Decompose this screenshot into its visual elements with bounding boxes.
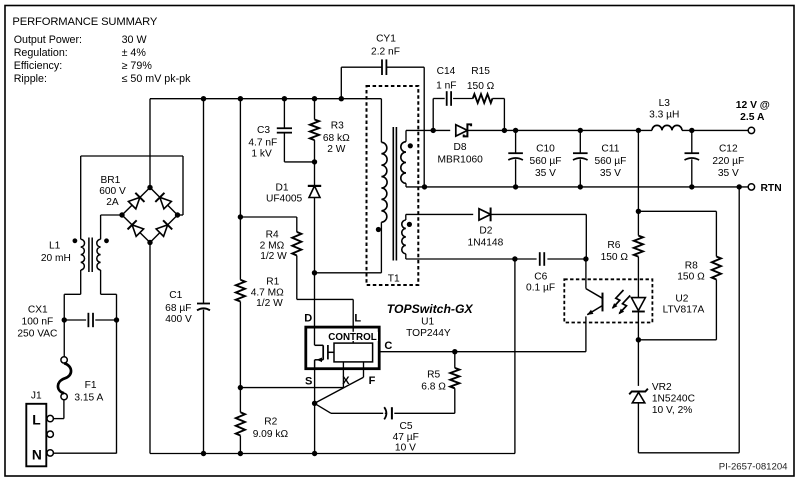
node feedback tap	[636, 209, 641, 214]
node CY1/RTN	[422, 184, 427, 189]
svg-text:Output Power:: Output Power:	[14, 34, 82, 46]
wire	[284, 161, 314, 163]
svg-text:MBR1060: MBR1060	[438, 154, 484, 165]
svg-text:1N5240C: 1N5240C	[652, 393, 695, 404]
wire	[101, 293, 117, 295]
resistor R15	[473, 94, 493, 103]
junction	[513, 184, 518, 189]
svg-text:47 µF: 47 µF	[393, 432, 419, 443]
wire	[315, 359, 324, 361]
svg-text:VR2: VR2	[652, 382, 672, 393]
wire	[315, 377, 364, 403]
wire	[381, 351, 586, 353]
T1 dashed box	[367, 86, 419, 285]
wire	[352, 299, 354, 343]
wire	[122, 188, 150, 216]
wire	[394, 412, 455, 414]
wire	[423, 67, 425, 187]
wire	[715, 280, 717, 340]
wire	[150, 215, 178, 243]
wire primary ground bus	[150, 453, 515, 455]
opto light arrows	[613, 290, 624, 308]
wire T1 primary bottom	[380, 222, 382, 273]
wire	[637, 403, 639, 453]
wire	[203, 99, 205, 304]
svg-text:N: N	[32, 447, 42, 462]
RTN terminal	[748, 184, 754, 190]
optocoupler U2 LED	[631, 298, 645, 311]
wire	[64, 293, 80, 295]
node clamp	[312, 159, 317, 164]
inductor L3	[652, 125, 682, 130]
svg-text:D2: D2	[479, 226, 492, 237]
svg-text:150 Ω: 150 Ω	[467, 81, 495, 92]
terminal J1 L	[47, 415, 53, 421]
svg-text:1 kV: 1 kV	[251, 148, 272, 159]
svg-text:C6: C6	[534, 272, 547, 283]
wire	[182, 156, 184, 215]
wire sec to D8	[406, 129, 450, 131]
wire	[314, 360, 316, 370]
wire	[315, 272, 382, 274]
svg-text:RTN: RTN	[761, 183, 782, 194]
svg-text:F1: F1	[85, 380, 97, 391]
svg-text:4.7 MΩ: 4.7 MΩ	[251, 287, 284, 298]
wire	[63, 400, 65, 419]
svg-text:1 nF: 1 nF	[436, 81, 456, 92]
svg-text:D8: D8	[453, 142, 466, 153]
diode D8	[456, 124, 471, 136]
wire	[715, 211, 717, 256]
svg-text:U2: U2	[675, 293, 688, 304]
wire R4 to L pin	[297, 298, 353, 300]
node L3 left	[636, 128, 641, 133]
wire	[406, 258, 537, 260]
U1 gate bar	[327, 345, 329, 359]
wire bias to D2	[406, 213, 473, 215]
svg-text:1N4148: 1N4148	[468, 238, 504, 249]
svg-text:L3: L3	[659, 98, 671, 109]
svg-text:Efficiency:: Efficiency:	[14, 60, 63, 72]
wire	[239, 302, 241, 413]
svg-text:C1: C1	[169, 290, 182, 301]
wire feedback tap	[637, 130, 639, 211]
wire	[391, 407, 393, 419]
svg-text:R6: R6	[607, 240, 620, 251]
svg-text:R3: R3	[331, 121, 344, 132]
svg-text:35 V: 35 V	[535, 168, 556, 179]
wire	[331, 412, 383, 414]
node CY1 rail	[339, 96, 344, 101]
svg-text:2.2 nF: 2.2 nF	[371, 46, 400, 57]
node VR2 return RTN	[737, 184, 742, 189]
svg-text:R2: R2	[264, 417, 277, 428]
node bridge +	[147, 185, 152, 190]
svg-text:100 nF: 100 nF	[22, 317, 54, 328]
svg-text:C: C	[384, 340, 392, 352]
svg-text:R15: R15	[471, 66, 490, 77]
wire	[239, 99, 241, 280]
wire	[585, 214, 587, 259]
wire	[587, 306, 602, 315]
wire	[579, 159, 581, 187]
wire	[341, 66, 382, 68]
svg-text:Regulation:: Regulation:	[14, 47, 68, 59]
svg-text:C12: C12	[719, 144, 738, 155]
wire	[314, 140, 316, 185]
svg-text:J1: J1	[31, 391, 42, 402]
svg-text:R4: R4	[266, 229, 279, 240]
wire	[585, 316, 587, 351]
node D8 anode	[431, 128, 436, 133]
svg-text:6.8 Ω: 6.8 Ω	[421, 381, 446, 392]
L1 phase dot left	[73, 238, 78, 243]
inductor L1 common-mode choke	[81, 239, 85, 270]
svg-text:L: L	[354, 313, 361, 325]
wire	[81, 155, 183, 157]
svg-text:3.15 A: 3.15 A	[74, 393, 103, 404]
L1 phase dot right	[104, 238, 109, 243]
connector J1	[26, 404, 46, 467]
svg-text:C3: C3	[257, 125, 270, 136]
wire	[503, 99, 505, 131]
diode D2	[479, 208, 491, 222]
svg-text:150 Ω: 150 Ω	[601, 252, 629, 263]
wire L1 left bottom	[80, 270, 82, 294]
svg-text:U1: U1	[421, 317, 434, 328]
svg-text:30 W: 30 W	[122, 34, 148, 46]
wire	[492, 98, 504, 100]
wire	[100, 215, 102, 239]
wire bridge ac1 to L1	[101, 214, 122, 216]
wire	[586, 289, 603, 299]
wire F pin	[363, 362, 365, 377]
terminal J1 N	[47, 450, 53, 456]
wire	[637, 257, 639, 298]
wire	[240, 216, 296, 218]
svg-text:UF4005: UF4005	[266, 194, 303, 205]
wire	[433, 98, 445, 100]
node LED cathode	[636, 337, 641, 342]
wire bias return riser	[514, 259, 516, 454]
svg-text:2.5 A: 2.5 A	[740, 112, 765, 123]
wire J1 N to CX1	[54, 452, 117, 454]
wire	[547, 258, 586, 260]
node bridge -	[147, 240, 152, 245]
wire	[64, 319, 86, 321]
wire	[95, 319, 116, 321]
svg-text:150 Ω: 150 Ω	[677, 272, 705, 283]
node D8 cathode	[502, 128, 507, 133]
wire	[691, 159, 693, 187]
wire	[240, 387, 343, 389]
node CX1 right	[114, 317, 119, 322]
fuse F1	[61, 357, 67, 363]
svg-text:PERFORMANCE SUMMARY: PERFORMANCE SUMMARY	[12, 16, 157, 28]
wire primary DC+ rail	[150, 98, 381, 100]
wire bridge+ to rail	[149, 99, 151, 188]
wire	[239, 436, 241, 454]
node CX1 left	[62, 317, 67, 322]
resistor R8	[712, 257, 721, 280]
wire bridge- down	[149, 243, 151, 454]
wire	[322, 345, 324, 360]
node bridge ac2	[175, 212, 180, 217]
svg-text:68 kΩ: 68 kΩ	[323, 133, 350, 144]
node bridge ac1	[119, 212, 124, 217]
wire	[453, 98, 473, 100]
node C3 rail	[282, 96, 287, 101]
svg-text:D: D	[304, 313, 312, 325]
node R1/R4 tap	[238, 214, 243, 219]
node R1 top rail	[238, 96, 243, 101]
zener VR2	[629, 389, 648, 395]
wire	[80, 156, 82, 239]
svg-text:400 V: 400 V	[165, 314, 192, 325]
junction	[578, 128, 583, 133]
svg-text:≤ 50 mV pk-pk: ≤ 50 mV pk-pk	[122, 73, 191, 85]
node R2 bus	[238, 451, 243, 456]
wire	[637, 312, 639, 340]
svg-text:CX1: CX1	[28, 305, 48, 316]
svg-text:C11: C11	[601, 144, 619, 155]
node R1/X junction	[238, 385, 243, 390]
svg-text:TOPSwitch-GX: TOPSwitch-GX	[387, 302, 474, 316]
output terminal 12V	[748, 127, 754, 133]
svg-text:Ripple:: Ripple:	[14, 73, 47, 85]
op-amp U1 TOP244Y box	[306, 327, 379, 369]
wire	[682, 129, 748, 131]
node S bus	[312, 451, 317, 456]
opto emitter arrow	[586, 310, 594, 317]
wire J1 L to fuse	[54, 418, 64, 420]
svg-text:2 MΩ: 2 MΩ	[260, 241, 285, 252]
wire	[691, 130, 693, 153]
svg-text:250 VAC: 250 VAC	[17, 329, 57, 340]
svg-text:PI-2657-081204: PI-2657-081204	[719, 462, 788, 473]
svg-text:2A: 2A	[106, 197, 119, 208]
wire	[296, 256, 298, 300]
T1 core	[392, 127, 394, 261]
node bias return	[512, 256, 517, 261]
wire	[386, 66, 424, 68]
svg-text:LTV817A: LTV817A	[663, 304, 705, 315]
node R5 top	[452, 349, 457, 354]
node source	[312, 401, 317, 406]
wire	[637, 211, 639, 235]
svg-text:T1: T1	[388, 274, 400, 285]
wire	[315, 344, 324, 346]
capacitor C5	[384, 407, 386, 419]
svg-text:12 V @: 12 V @	[736, 100, 770, 111]
svg-text:4.7 nF: 4.7 nF	[248, 138, 277, 149]
svg-text:35 V: 35 V	[600, 168, 621, 179]
svg-text:TOP244Y: TOP244Y	[406, 328, 451, 339]
node C1 bottom	[201, 451, 206, 456]
T1 primary winding	[381, 142, 387, 222]
wire	[315, 404, 331, 414]
wire	[63, 294, 65, 356]
wire S pin to bus	[314, 370, 316, 454]
wire	[406, 186, 748, 188]
svg-text:C14: C14	[437, 66, 456, 77]
wire	[122, 215, 150, 243]
T1 primary phase dot	[376, 227, 381, 232]
svg-text:R1: R1	[266, 277, 279, 288]
svg-text:BR1: BR1	[100, 175, 120, 186]
svg-text:S: S	[305, 375, 312, 387]
svg-text:9.09 kΩ: 9.09 kΩ	[253, 429, 289, 440]
wire	[405, 254, 407, 259]
wire	[296, 217, 298, 232]
svg-text:560 µF: 560 µF	[530, 156, 562, 167]
svg-text:1/2 W: 1/2 W	[256, 298, 283, 309]
junction	[578, 184, 583, 189]
svg-text:CY1: CY1	[376, 33, 396, 44]
svg-text:D1: D1	[275, 183, 288, 194]
wire	[585, 259, 587, 289]
svg-text:600 V: 600 V	[99, 186, 126, 197]
wire	[638, 452, 739, 454]
svg-text:≥ 79%: ≥ 79%	[122, 60, 153, 72]
svg-text:L1: L1	[49, 241, 61, 252]
junction	[689, 184, 694, 189]
svg-text:0.1 µF: 0.1 µF	[526, 283, 555, 294]
wire	[638, 210, 716, 212]
wire to VR2	[637, 340, 639, 386]
wire bridge ac2 stub	[178, 214, 184, 216]
svg-text:C10: C10	[536, 144, 555, 155]
wire	[150, 188, 178, 216]
svg-text:220 µF: 220 µF	[712, 156, 744, 167]
svg-text:35 V: 35 V	[718, 168, 739, 179]
terminal J1 mid	[47, 431, 53, 437]
wire L1 right bottom	[100, 270, 102, 294]
wire	[340, 67, 342, 99]
svg-text:CONTROL: CONTROL	[328, 332, 376, 343]
wire	[283, 99, 285, 128]
svg-text:560 µF: 560 µF	[594, 156, 626, 167]
U1 control block	[334, 343, 373, 362]
opto base bar	[602, 293, 604, 312]
T1 secondary phase dot	[408, 143, 413, 148]
wire	[405, 183, 407, 187]
svg-text:3.3 µH: 3.3 µH	[649, 110, 679, 121]
wire	[283, 133, 285, 162]
wire	[454, 388, 456, 413]
resistor R2	[236, 412, 245, 435]
svg-text:2 W: 2 W	[327, 144, 345, 155]
node R3 rail	[312, 96, 317, 101]
node L3 right	[689, 128, 694, 133]
svg-text:R5: R5	[427, 370, 440, 381]
optocoupler U2 dashed box	[564, 279, 652, 322]
wire	[454, 352, 456, 368]
svg-text:68 µF: 68 µF	[165, 303, 191, 314]
wire	[405, 214, 407, 220]
svg-text:20 mH: 20 mH	[41, 253, 71, 264]
svg-text:R8: R8	[685, 261, 698, 272]
wire	[405, 130, 407, 141]
wire	[579, 130, 581, 153]
wire T1 primary top	[380, 99, 382, 143]
svg-text:X: X	[342, 375, 350, 387]
wire	[116, 294, 118, 453]
wire	[738, 187, 740, 453]
svg-text:C5: C5	[399, 421, 412, 432]
wire X pin	[342, 362, 344, 388]
wire	[515, 130, 517, 153]
wire drain column	[314, 198, 316, 346]
resistor R5	[450, 368, 459, 388]
node C1 top	[201, 96, 206, 101]
node drain/T1	[312, 270, 317, 275]
junction	[513, 128, 518, 133]
svg-text:1/2 W: 1/2 W	[260, 251, 287, 262]
wire	[314, 99, 316, 120]
wire	[203, 310, 205, 454]
wire	[638, 339, 716, 341]
svg-text:10 V: 10 V	[395, 443, 416, 454]
wire	[385, 412, 386, 414]
wire	[515, 159, 517, 187]
svg-text:10 V, 2%: 10 V, 2%	[652, 405, 692, 416]
wire	[432, 99, 434, 131]
svg-text:F: F	[369, 375, 376, 387]
T1 bias phase dot	[407, 222, 412, 227]
wire 12V rail	[468, 129, 653, 131]
wire	[632, 311, 645, 313]
svg-text:L: L	[32, 412, 40, 427]
wire	[491, 213, 586, 215]
diode D1	[308, 186, 321, 198]
svg-text:± 4%: ± 4%	[122, 47, 147, 59]
node opto collector	[583, 256, 588, 261]
wire	[328, 351, 334, 353]
